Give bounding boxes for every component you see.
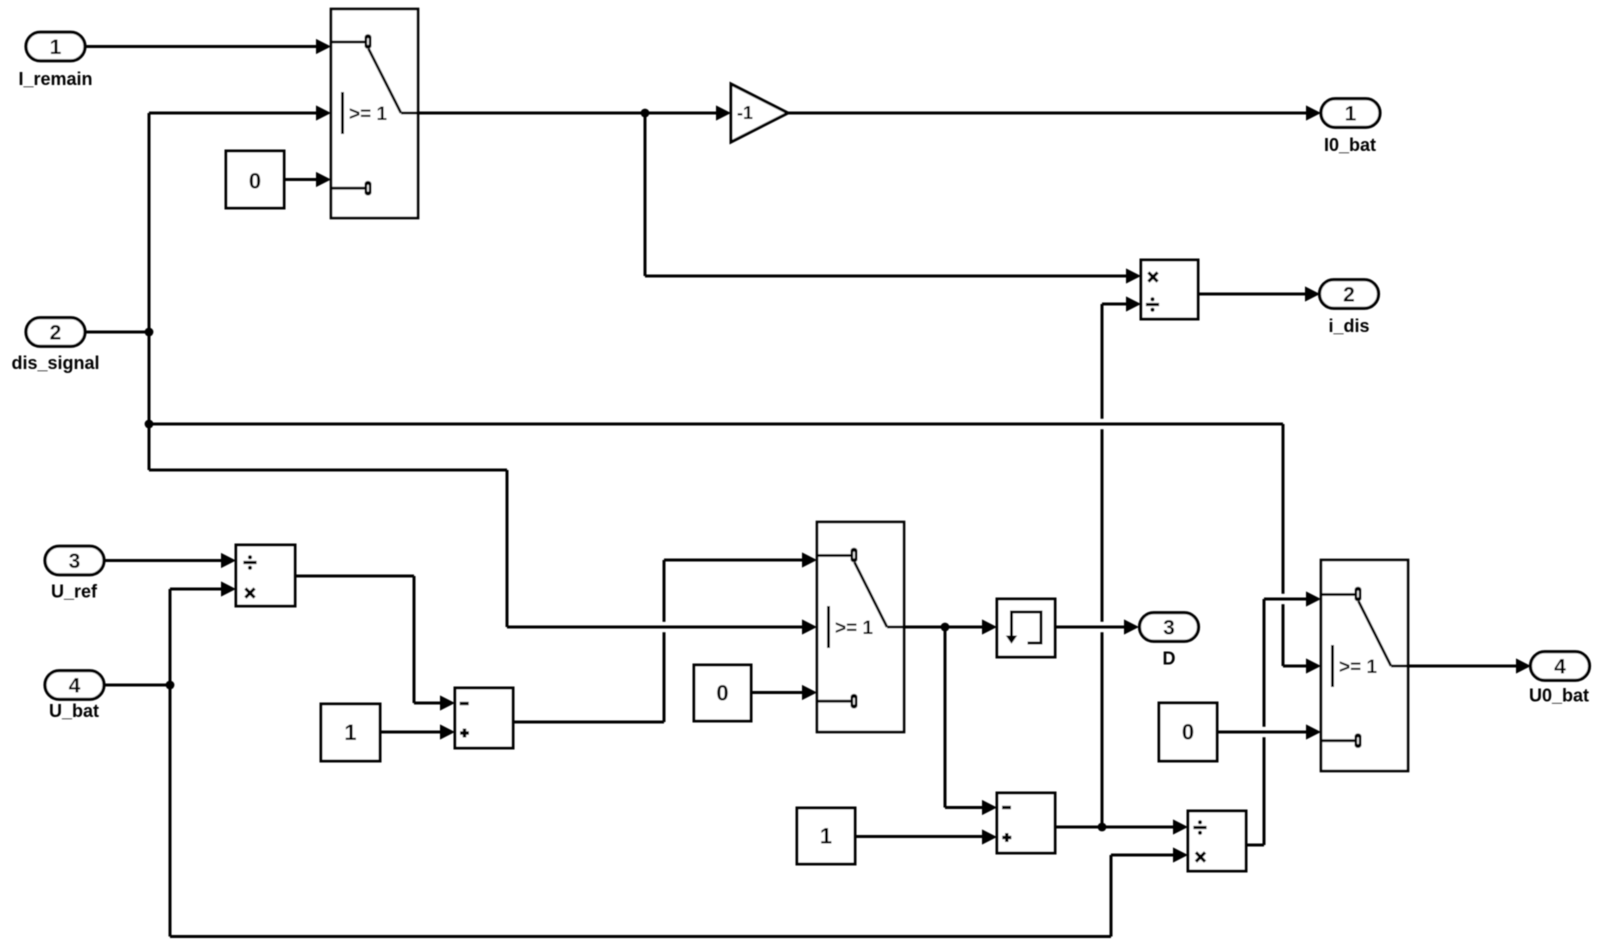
constant 0 (feeds Switch1) xyxy=(226,151,284,208)
junction gain input branch xyxy=(641,109,650,118)
product glyph x upper xyxy=(1148,272,1157,281)
wire to Switch1 middle input xyxy=(149,105,331,120)
svg-text:2: 2 xyxy=(1343,284,1355,307)
svg-text:>= 1: >= 1 xyxy=(835,618,873,639)
Sum2 plus sign xyxy=(1002,836,1011,839)
wire dis_signal long horizontal xyxy=(149,423,1283,426)
gain block -1 xyxy=(731,84,788,142)
svg-text:0: 0 xyxy=(1182,720,1194,745)
constant 0 (feeds Switch3) xyxy=(1159,703,1217,761)
svg-text:U0_bat: U0_bat xyxy=(1529,686,1589,706)
Sum2 minus sign xyxy=(1002,806,1011,809)
wire branch down to product x input xyxy=(645,113,1141,284)
svg-text:D: D xyxy=(1163,649,1176,669)
svg-text:2: 2 xyxy=(50,322,62,345)
svg-text:-1: -1 xyxy=(737,103,753,123)
wire U_bat stub xyxy=(104,684,170,687)
svg-text:1: 1 xyxy=(344,720,356,745)
product block (i_dis) xyxy=(1141,260,1198,319)
wire constant0 to Switch1 bottom xyxy=(284,172,331,187)
wire Sum2 net up to product divide input xyxy=(1102,296,1141,827)
Sum1 minus sign xyxy=(460,702,469,705)
svg-text:U_bat: U_bat xyxy=(49,701,99,721)
outport 1 I0_bat xyxy=(1321,99,1380,128)
wire constant0 to Switch3 bottom xyxy=(1217,724,1321,739)
wire to Switch2 middle input xyxy=(149,470,817,635)
divide2 glyph x lower xyxy=(1196,852,1205,861)
outport 2 i_dis xyxy=(1320,280,1379,309)
junction dis_signal branch xyxy=(145,420,154,429)
junction U_bat xyxy=(166,681,175,690)
wire Switch3 output to U0_bat xyxy=(1408,658,1531,673)
wire divide2 output to Switch3 top xyxy=(1246,591,1321,845)
junction Switch2 output xyxy=(941,623,950,632)
divide block (U_ref / U_bat) xyxy=(236,545,295,606)
wire constant0 to Switch2 bottom xyxy=(751,685,817,700)
svg-text:I_remain: I_remain xyxy=(18,69,92,89)
svg-text:4: 4 xyxy=(69,675,81,698)
wire memory output to D xyxy=(1055,619,1139,634)
svg-text:0: 0 xyxy=(716,681,728,706)
constant 1 (feeds Sum1) xyxy=(321,704,380,761)
wire product output to i_dis xyxy=(1198,286,1320,301)
inport 4 U_bat xyxy=(45,671,104,700)
svg-text:i_dis: i_dis xyxy=(1328,316,1369,336)
wire I_remain to Switch1 top xyxy=(85,39,331,54)
wire dis_signal stub xyxy=(85,331,149,334)
wire gain output to I0_bat xyxy=(788,105,1321,120)
inport 2 dis_signal xyxy=(26,318,85,347)
switch block Switch3 xyxy=(1321,560,1408,771)
divide block (U0 path) xyxy=(1188,811,1246,871)
divide glyph ÷ upper xyxy=(243,561,256,564)
inport 1 I_remain xyxy=(26,32,85,61)
wire U_bat up to divide x input xyxy=(170,581,236,685)
svg-text:U_ref: U_ref xyxy=(51,582,98,602)
outport 3 D xyxy=(1140,613,1199,642)
svg-text:3: 3 xyxy=(69,550,81,573)
sum block Sum1 xyxy=(455,688,513,748)
constant 1 (feeds Sum2) xyxy=(797,808,855,864)
svg-text:1: 1 xyxy=(50,36,62,59)
svg-text:1: 1 xyxy=(820,824,832,849)
svg-text:0: 0 xyxy=(249,168,261,193)
constant 0 (feeds Switch2) xyxy=(694,665,751,721)
outport 4 U0_bat xyxy=(1531,652,1590,681)
svg-text:>= 1: >= 1 xyxy=(1339,657,1377,678)
wire divide output to Sum1 minus xyxy=(295,576,455,711)
wire U_bat down along bottom to divide2 x input xyxy=(170,685,1188,937)
Sum1 plus sign xyxy=(460,731,469,734)
sum block Sum2 xyxy=(997,793,1055,853)
inport 3 U_ref xyxy=(45,546,104,575)
svg-text:3: 3 xyxy=(1163,617,1175,640)
divide2 glyph ÷ upper xyxy=(1193,826,1206,829)
switch block Switch1 xyxy=(331,9,418,218)
product glyph ÷ lower xyxy=(1146,303,1159,306)
junction dis_signal xyxy=(145,328,154,337)
wire constant1 to Sum1 plus xyxy=(380,724,455,739)
wire branch down to Sum2 minus xyxy=(945,627,997,815)
svg-text:dis_signal: dis_signal xyxy=(11,353,99,373)
wire Sum1 output to Switch2 top xyxy=(513,552,817,722)
wire Sum2 output to divide2 xyxy=(1055,819,1188,834)
wire constant1 to Sum2 plus xyxy=(855,829,997,844)
wire dis_signal vertical riser xyxy=(148,113,151,470)
svg-text:>= 1: >= 1 xyxy=(349,104,387,125)
svg-text:1: 1 xyxy=(1345,103,1357,126)
wire U_ref to divide input xyxy=(104,553,236,568)
wire down to Switch3 middle xyxy=(1283,424,1321,674)
junction Sum2 output xyxy=(1098,823,1107,832)
svg-text:4: 4 xyxy=(1554,656,1566,679)
memory block xyxy=(997,599,1055,657)
wire Switch2 output to memory xyxy=(904,619,997,634)
switch block Switch2 xyxy=(817,522,904,732)
wire Switch1 output to gain xyxy=(418,105,731,120)
svg-text:I0_bat: I0_bat xyxy=(1324,135,1376,155)
divide glyph x lower xyxy=(245,588,254,597)
